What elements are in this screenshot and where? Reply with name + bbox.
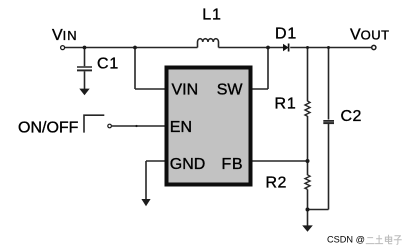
wire: C2 to bottom return — [328, 124, 330, 210]
node: small dot on EN wire — [135, 125, 137, 127]
op-amp U1 regulator box — [167, 68, 251, 185]
node: junction VIN pin drop — [133, 46, 137, 50]
diode D1 — [283, 44, 289, 52]
svg-text:ON/OFF: ON/OFF — [18, 120, 79, 137]
node: junction R1 top — [306, 46, 309, 49]
wire: top rail to C2 — [328, 48, 330, 120]
wire: bottom node to C2 return — [308, 209, 329, 211]
terminal: VIN input circle — [61, 46, 65, 50]
ground arrowhead below GND pin — [141, 199, 150, 206]
wire: FB node to R2 — [307, 161, 309, 175]
svg-text:R2: R2 — [266, 175, 287, 192]
wire: top rail VIN terminal to L1 — [65, 47, 198, 49]
ground arrowhead below C1 — [79, 89, 89, 96]
watermark CJK glyphs 二土电子 — [366, 235, 402, 245]
node: bottom junction — [306, 208, 310, 212]
resistor R2 zigzag — [305, 175, 310, 190]
node: junction SW drop — [266, 46, 270, 50]
switch lever ON/OFF — [84, 115, 104, 132]
node: junction C2 top — [327, 46, 330, 49]
wire: C1 branch drop — [84, 48, 86, 67]
svg-text:VIN: VIN — [52, 27, 78, 44]
svg-text:EN: EN — [170, 119, 192, 136]
watermark CSDN — [327, 235, 365, 245]
wire: R1 to FB node — [307, 116, 309, 161]
node: junction VIN/C1 — [83, 46, 87, 50]
wire: bottom node to ground arrow — [307, 210, 309, 227]
svg-text:R1: R1 — [275, 95, 297, 112]
resistor R1 zigzag — [305, 101, 310, 116]
svg-text:CSDN @: CSDN @ — [327, 235, 365, 245]
terminal: VOUT output circle — [372, 45, 376, 49]
svg-text:VIN: VIN — [172, 81, 199, 98]
wire: C1 to ground — [84, 71, 86, 89]
wire: EN pin — [112, 125, 165, 127]
node: FB junction — [306, 159, 310, 163]
svg-text:FB: FB — [222, 156, 243, 173]
terminal: switch contact circle — [108, 124, 112, 128]
svg-text:SW: SW — [217, 81, 244, 98]
wire: diode cathode to VOUT terminal — [290, 47, 372, 49]
svg-text:C2: C2 — [341, 108, 362, 125]
inductor L1 — [198, 39, 219, 48]
wire: R2 to bottom node — [307, 189, 309, 209]
wire: VIN pin branch — [135, 48, 165, 90]
svg-text:VOUT: VOUT — [350, 26, 390, 43]
wire: FB pin — [253, 160, 308, 162]
svg-text:L1: L1 — [202, 6, 221, 23]
svg-text:GND: GND — [170, 156, 206, 173]
ground arrowhead below R2 node — [302, 225, 313, 231]
capacitor C2 plates — [323, 120, 334, 122]
capacitor C1 plates — [77, 66, 92, 68]
wire: L1 to diode anode — [219, 47, 284, 49]
svg-text:D1: D1 — [275, 25, 297, 42]
svg-text:C1: C1 — [97, 55, 119, 72]
wire: top rail to R1 — [307, 48, 309, 102]
wire: SW pin branch — [253, 48, 269, 90]
wire: GND pin to ground — [146, 161, 165, 200]
